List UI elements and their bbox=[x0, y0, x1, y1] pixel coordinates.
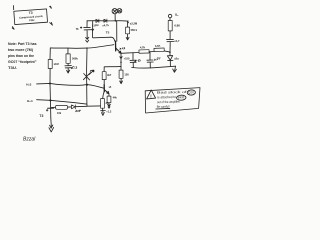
wire collector link bbox=[104, 66, 121, 71]
wire V1 lower bbox=[49, 69, 52, 118]
resistor R6 bbox=[119, 63, 123, 84]
svg-text:4,2k: 4,2k bbox=[140, 45, 146, 49]
label X node bbox=[90, 70, 94, 72]
wire ground rail bottom bbox=[132, 66, 176, 68]
junction dot 2.2M node bbox=[127, 22, 129, 24]
resistor R1 bbox=[126, 21, 130, 40]
diode D1 bbox=[96, 19, 99, 22]
resistor R8 bbox=[107, 96, 111, 103]
svg-text:44k: 44k bbox=[113, 97, 118, 100]
svg-text:Bad stock of: Bad stock of bbox=[157, 90, 187, 95]
ground arrow T4 bbox=[108, 103, 111, 108]
resistor R11 bbox=[56, 105, 68, 109]
svg-text:is attached to: is attached to bbox=[157, 95, 176, 99]
capacitor C4 bbox=[167, 39, 174, 52]
resistor R4 bbox=[154, 48, 164, 52]
svg-text:PSU: PSU bbox=[29, 19, 35, 22]
wire T5 base feedback bbox=[50, 45, 114, 49]
svg-text:V₂: V₂ bbox=[175, 13, 179, 17]
ground arrow right bbox=[173, 66, 177, 72]
svg-text:H+4: H+4 bbox=[27, 99, 33, 103]
label T5 emitter value bbox=[120, 48, 125, 50]
transistor T3 bbox=[46, 108, 53, 132]
svg-text:x4,7k: x4,7k bbox=[102, 23, 109, 27]
svg-text:T3U.: T3U. bbox=[8, 66, 17, 70]
input wire 2 bbox=[37, 100, 87, 104]
label D3 value bbox=[75, 110, 80, 112]
input wire 1 bbox=[37, 83, 104, 88]
svg-text:pins than on the: pins than on the bbox=[8, 54, 34, 58]
wire supply top W1 bbox=[87, 20, 128, 22]
resistor R7 bbox=[102, 72, 106, 80]
wire R7 to T4 bbox=[103, 80, 105, 85]
svg-text:x1M: x1M bbox=[54, 62, 59, 66]
wire emitter rail bbox=[121, 51, 169, 53]
svg-text:T5: T5 bbox=[106, 30, 110, 34]
bottom wire with resistor and diode bbox=[51, 106, 87, 107]
junction dot lamp/collector bbox=[115, 20, 117, 22]
corner tick bottom-right bbox=[50, 22, 53, 25]
capacitor C6 bbox=[147, 52, 153, 68]
circle around Q10 bbox=[187, 90, 196, 96]
down arrow x150 bbox=[120, 54, 122, 62]
transistor T5 bbox=[116, 21, 122, 53]
wire V2 bottom corner bbox=[87, 104, 100, 106]
arrow C1 to base node bbox=[86, 31, 89, 43]
resistor R2 6.8K bbox=[168, 18, 172, 39]
svg-text:76: 76 bbox=[76, 27, 79, 31]
chip outline box T3 bbox=[14, 9, 48, 25]
svg-text:T3: T3 bbox=[39, 114, 43, 118]
svg-text:GC07 “footprint”: GC07 “footprint” bbox=[8, 60, 37, 64]
capacitor C5 bbox=[130, 53, 136, 68]
transistor T4 bbox=[104, 85, 109, 94]
tick arrow on pullup wire bbox=[92, 29, 94, 31]
junction dot base/V2 bbox=[86, 47, 87, 48]
diode D3 bbox=[72, 105, 76, 109]
resistor R3 bbox=[139, 50, 149, 54]
svg-text:x4,7: x4,7 bbox=[174, 39, 180, 43]
label C5 value bbox=[134, 60, 141, 63]
svg-text:+1,2: +1,2 bbox=[106, 109, 112, 113]
warning triangle bbox=[147, 90, 156, 99]
svg-text:x5: x5 bbox=[109, 86, 112, 89]
corner tick top-right bbox=[50, 6, 52, 8]
resistor R10 below base wire bbox=[65, 48, 72, 73]
lamp DS2 scribble bbox=[117, 8, 122, 12]
lamp DS1 bbox=[112, 9, 117, 14]
svg-text:Q10: Q10 bbox=[188, 90, 194, 94]
junction dot mid bbox=[120, 62, 122, 64]
svg-text:6.8K: 6.8K bbox=[174, 23, 180, 27]
junction dot emitter rail right bbox=[169, 51, 171, 53]
svg-text:two more (7M): two more (7M) bbox=[8, 48, 34, 52]
svg-text:Bzzal: Bzzal bbox=[23, 137, 36, 143]
svg-text:+150: +150 bbox=[124, 57, 130, 61]
ground symbol R5 bbox=[101, 111, 106, 116]
diagonal arrow label bbox=[89, 70, 94, 75]
svg-text:H₂3: H₂3 bbox=[26, 83, 31, 87]
wire base pullup from W1 bbox=[93, 21, 115, 41]
wire T4 emitter down bbox=[108, 94, 110, 96]
svg-text:10k: 10k bbox=[57, 112, 62, 115]
svg-text:560k: 560k bbox=[72, 56, 78, 60]
diode D2 bbox=[104, 19, 107, 22]
svg-text:!: ! bbox=[150, 93, 151, 98]
junction dot in1/V1 bbox=[49, 82, 51, 84]
svg-text:x2,2M: x2,2M bbox=[130, 21, 137, 25]
svg-text:T3: T3 bbox=[29, 11, 33, 15]
X mark on V2 bbox=[83, 73, 90, 80]
svg-text:150: 150 bbox=[124, 73, 129, 77]
resistor R5 chain bbox=[101, 92, 105, 111]
terminal V+ bbox=[168, 14, 171, 17]
underline Be careful bbox=[156, 107, 170, 110]
svg-text:out of the amplifier.: out of the amplifier. bbox=[157, 100, 181, 104]
diode C7 to ground bbox=[167, 52, 173, 65]
label R10 node bbox=[71, 66, 77, 68]
label C6 value bbox=[154, 57, 160, 60]
junction dot in1/V2 bbox=[86, 84, 88, 86]
handwritten note bbox=[8, 42, 37, 70]
corner tick top-left bbox=[13, 6, 15, 10]
svg-text:5,6K: 5,6K bbox=[155, 44, 161, 48]
svg-text:Note: Part T3 has: Note: Part T3 has bbox=[8, 42, 37, 46]
capacitor C1 polarized bbox=[80, 21, 90, 30]
wire lamp stem bbox=[114, 14, 116, 21]
svg-text:4k7: 4k7 bbox=[107, 73, 112, 77]
svg-text:560 k: 560 k bbox=[131, 28, 138, 32]
svg-text:x2u: x2u bbox=[174, 57, 179, 61]
circle around BKO bbox=[176, 95, 186, 101]
resistor R9 bbox=[48, 60, 52, 69]
vertical V2 bbox=[86, 48, 88, 104]
long vertical V1 with resistor bbox=[49, 48, 51, 59]
corner tick bottom-left bbox=[12, 27, 14, 30]
warning note box bbox=[145, 88, 200, 113]
junction dot in2/V1 bbox=[49, 99, 51, 101]
